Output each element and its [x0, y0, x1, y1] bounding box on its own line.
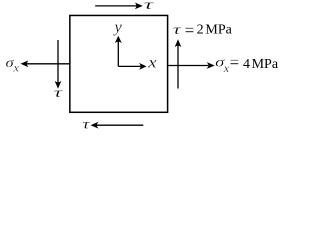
svg-text:y: y — [112, 19, 122, 36]
svg-text:2: 2 — [197, 23, 204, 38]
svg-text:x: x — [223, 61, 230, 75]
svg-text:MPa: MPa — [205, 23, 232, 38]
svg-text:x: x — [147, 55, 157, 72]
svg-text:x: x — [12, 61, 19, 75]
svg-text:MPa: MPa — [252, 57, 279, 72]
svg-text:4: 4 — [243, 57, 250, 72]
